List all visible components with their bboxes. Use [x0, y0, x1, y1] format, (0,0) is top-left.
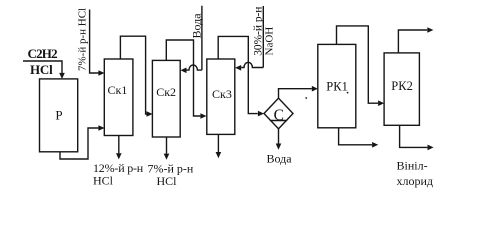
arrow 7% HCl outlet down — [164, 154, 170, 160]
arrow PK1 bottom outlet right — [372, 142, 378, 148]
arrow Ck2 overhead into Ck3 left — [200, 113, 206, 119]
wire PK1 overhead to PK2 — [337, 26, 379, 103]
wire Ck2 overhead to Ck3 — [166, 40, 200, 116]
svg-text:HCl: HCl — [30, 62, 53, 77]
dot after PK1 label — [347, 92, 349, 94]
svg-text:Вініл-: Вініл- — [397, 158, 428, 172]
svg-text:РК1: РК1 — [326, 80, 348, 94]
arrow Ck3 bottom outlet down — [216, 152, 222, 158]
column Ck2 — [152, 60, 180, 137]
wire separator bottom outlet water — [278, 129, 280, 144]
svg-text:Ск3: Ск3 — [212, 87, 232, 101]
reactor P — [40, 79, 78, 152]
arrow Voda into Ck2 right — [180, 68, 186, 74]
wire Ck3 bottom outlet — [217, 134, 219, 152]
arrow separator top into PK1 left — [312, 86, 318, 92]
wire Ck3 overhead to separator C — [218, 36, 258, 113]
arrow into P top — [59, 73, 65, 79]
arrow separator bottom water down — [276, 144, 282, 150]
wire PK2 bottom outlet vinyl chloride — [400, 125, 428, 147]
wire Ck2 bottom outlet 7% HCl — [166, 137, 168, 154]
svg-text:Ск2: Ск2 — [156, 85, 176, 99]
arrow PK1 overhead into PK2 left — [378, 100, 384, 106]
svg-text:HCl: HCl — [93, 173, 114, 187]
column PK2 — [384, 53, 419, 125]
svg-text:7%-й р-н HCl: 7%-й р-н HCl — [77, 8, 89, 71]
wire Ck1 overhead to Ck2 — [120, 36, 146, 114]
svg-text:Вода: Вода — [190, 13, 204, 39]
dot stray near PK1 — [305, 97, 307, 99]
arrow Ck1 overhead into Ck2 left — [147, 111, 153, 117]
wire 7% HCl feed line — [90, 10, 99, 74]
separator C diamond — [264, 98, 293, 129]
arrow PK2 bottom outlet right — [428, 145, 434, 151]
column Ck1 — [104, 59, 133, 136]
wire Ck1 bottom outlet 12% HCl — [118, 136, 120, 154]
svg-text:Р: Р — [55, 107, 62, 122]
arrow NaOH into Ck3 right — [235, 65, 241, 71]
svg-text:РК2: РК2 — [391, 79, 413, 93]
column Ck3 — [207, 59, 235, 134]
svg-text:С: С — [274, 107, 284, 124]
svg-text:хлорид: хлорид — [397, 174, 434, 188]
svg-text:C2H2: C2H2 — [28, 46, 58, 61]
arrow Ck3 overhead into separator — [258, 111, 264, 117]
wire PK1 bottom outlet — [339, 128, 372, 145]
arrow PK2 top outlet right — [427, 27, 433, 33]
wire C2H2+HCl feed into P — [23, 61, 62, 74]
wire P bottom recycle to Ck1 — [60, 128, 99, 159]
svg-text:NaOH: NaOH — [263, 27, 275, 56]
wire NaOH feed with hop into Ck3 — [241, 6, 263, 68]
svg-text:Ск1: Ск1 — [108, 83, 128, 97]
wire separator top to PK1 — [279, 89, 312, 99]
wire PK2 top outlet — [398, 30, 427, 53]
svg-text:Вода: Вода — [267, 151, 293, 165]
wire Voda feed with hop into Ck2 — [186, 6, 202, 70]
svg-text:HCl: HCl — [157, 174, 178, 188]
arrow recycle into Ck1 left — [98, 125, 104, 131]
separator C chord — [270, 120, 287, 122]
column PK1 — [318, 44, 356, 127]
arrow 7% HCl into Ck1 left — [98, 70, 104, 76]
arrow 12% HCl outlet down — [116, 153, 122, 159]
